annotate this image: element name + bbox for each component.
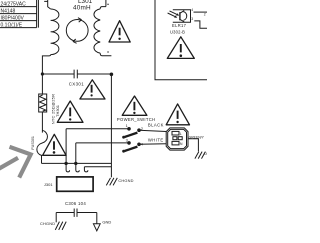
svg-text:1: 1 <box>126 124 128 128</box>
svg-text:GND: GND <box>102 220 111 225</box>
svg-text:CH: CH <box>204 152 207 156</box>
svg-text:POWER_SWITCH: POWER_SWITCH <box>117 117 156 122</box>
svg-text:CX301: CX301 <box>69 81 85 86</box>
svg-text:C306 104: C306 104 <box>65 201 86 206</box>
svg-text:2: 2 <box>204 12 206 16</box>
svg-text:CHGND: CHGND <box>40 221 55 226</box>
svg-text:I80P/400V: I80P/400V <box>1 15 25 21</box>
svg-text:3: 3 <box>191 17 193 21</box>
svg-text:ELR17: ELR17 <box>172 23 187 28</box>
svg-text:J301: J301 <box>44 182 53 187</box>
svg-text:24/275VAC: 24/275VAC <box>1 1 27 7</box>
svg-text:U302-B: U302-B <box>170 30 185 35</box>
svg-text:0.1Ω(1)/E: 0.1Ω(1)/E <box>1 22 23 28</box>
svg-text:40mH: 40mH <box>73 4 91 11</box>
svg-text:N4148: N4148 <box>1 8 16 14</box>
svg-text:TH301: TH301 <box>55 104 60 117</box>
svg-text:L: L <box>180 132 182 136</box>
svg-text:FUS301: FUS301 <box>31 136 35 150</box>
svg-text:N: N <box>180 142 183 146</box>
svg-text:WHITE: WHITE <box>148 138 164 143</box>
svg-text:3: 3 <box>126 138 128 142</box>
svg-text:CHGND: CHGND <box>118 178 133 183</box>
svg-text:BLACK: BLACK <box>148 122 164 127</box>
svg-text:4: 4 <box>191 8 193 12</box>
